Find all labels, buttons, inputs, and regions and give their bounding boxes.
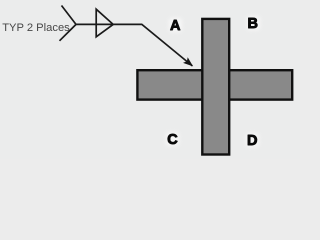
- svg-text:A: A: [170, 18, 181, 34]
- svg-text:TYP 2 Places: TYP 2 Places: [2, 22, 70, 34]
- svg-text:D: D: [247, 133, 257, 149]
- svg-text:C: C: [167, 132, 178, 148]
- svg-text:B: B: [247, 16, 257, 32]
